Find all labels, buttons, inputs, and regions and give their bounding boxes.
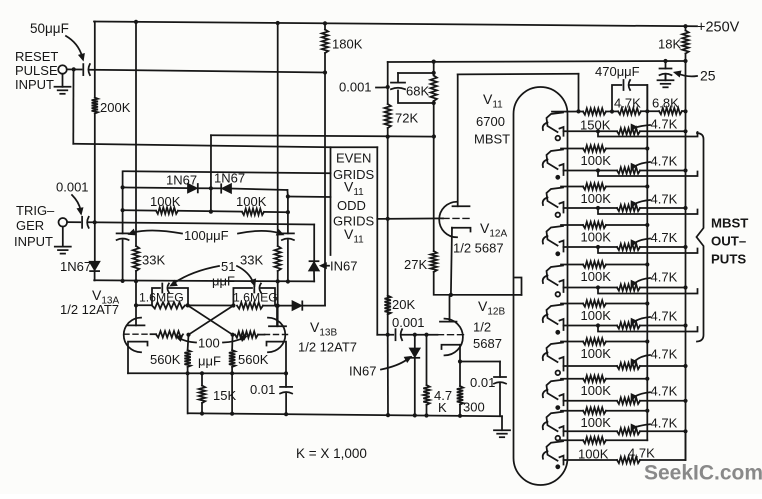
stage 4 filled dot	[555, 251, 560, 256]
arrow 4.7K stage 2	[633, 162, 650, 168]
node x288/100K row	[286, 210, 290, 214]
terminal trigger input	[59, 218, 68, 227]
svg-text:100K: 100K	[578, 447, 609, 462]
MBST stage 10 electrode	[547, 441, 564, 461]
svg-text:TRIG–: TRIG–	[16, 203, 55, 218]
wire V12A cathode down	[451, 228, 452, 295]
svg-text:15K: 15K	[213, 388, 236, 403]
node grid line	[386, 333, 390, 337]
capacitor 51uuF right loop	[233, 288, 252, 306]
resistor 100K left	[156, 208, 178, 214]
V13A cathode	[128, 342, 148, 374]
node V13B plate/diode	[275, 304, 279, 308]
resistor 4.7K stage 4	[617, 244, 640, 250]
svg-text:K: K	[438, 400, 447, 415]
resistor 4.7K V12B	[423, 385, 429, 405]
svg-text:0.001: 0.001	[339, 80, 372, 95]
node out bus stage 3	[683, 206, 687, 210]
resistor 4.7K stage 2	[617, 167, 640, 173]
wire to 25 cap	[665, 61, 667, 69]
node rail/180K line	[323, 21, 327, 25]
svg-text:20K: 20K	[392, 297, 415, 312]
wire V12B grid line	[377, 334, 393, 336]
wire stage 2 4.7K row	[564, 170, 618, 172]
node grid/4.7K	[424, 333, 428, 337]
wire 180K line down to output diode	[324, 53, 326, 306]
arrow 4.7K stage 4	[633, 239, 650, 245]
wire 1.6MEG row right	[263, 305, 293, 307]
stage 10 filled dot	[555, 464, 560, 469]
node out bus stage 5	[683, 285, 687, 289]
resistor 27K	[431, 251, 437, 272]
arrow 4.7K stage 9	[633, 424, 650, 428]
node bus stage 6	[645, 301, 649, 305]
stage 1 open dot	[556, 136, 561, 141]
wire x288 mid	[287, 197, 289, 234]
resistor 4.7K stage 9	[617, 428, 640, 434]
wire 300 to rail	[459, 405, 461, 416]
svg-text:100K: 100K	[581, 308, 612, 323]
svg-text:PUTS: PUTS	[711, 252, 746, 267]
diode 1N67 trigger A	[90, 262, 99, 270]
svg-text:4.7K: 4.7K	[651, 192, 678, 207]
stage 6 filled dot	[555, 330, 560, 335]
wire stage 5 100K row	[561, 264, 583, 266]
diode 1N67 odd-grids	[309, 263, 318, 271]
wire grid to 560K left	[187, 335, 190, 350]
node bus stage 8	[645, 377, 649, 381]
svg-text:1N67: 1N67	[166, 173, 197, 188]
node out bus stage 7	[683, 364, 687, 368]
wire stage 6 100K row	[561, 303, 583, 305]
diode 1N67 V12B	[410, 349, 419, 357]
V13B plate	[269, 325, 286, 327]
capacitor 0.001 V12B	[395, 329, 397, 340]
svg-text:100K: 100K	[581, 383, 612, 398]
wire grids box right edge down to V12B grid	[376, 147, 378, 334]
node rail/300	[458, 414, 462, 418]
svg-text:GRIDS: GRIDS	[333, 214, 375, 229]
svg-text:1N67: 1N67	[60, 259, 91, 274]
node V12A cathode/V12B plate	[449, 293, 453, 297]
svg-text:560K: 560K	[238, 352, 269, 367]
wire stage 9 100K row	[561, 410, 583, 412]
svg-text:100μμF: 100μμF	[184, 228, 229, 243]
resistor 100K stage 7	[583, 338, 606, 344]
svg-text:MBST: MBST	[711, 216, 748, 231]
resistor 33K right	[275, 246, 281, 271]
node 0.001	[386, 85, 390, 89]
wire 0.01 to rail	[499, 384, 501, 416]
MBST stage 1 electrode	[547, 113, 564, 133]
node V13B plate/row	[276, 279, 280, 283]
node odd-grids	[286, 194, 290, 198]
capacitor 25	[660, 68, 672, 70]
svg-text:100K: 100K	[581, 269, 612, 284]
resistor 100K stage 5	[583, 261, 606, 267]
svg-text:560K: 560K	[150, 352, 181, 367]
svg-text:MBST: MBST	[474, 132, 510, 147]
resistor 4.7K stage 6	[617, 322, 640, 328]
resistor 100K stage 2	[583, 145, 606, 151]
V13A plate	[128, 324, 145, 326]
resistor 100K stage 6	[583, 300, 606, 306]
wire	[402, 334, 437, 336]
node row1 left	[576, 109, 580, 113]
node grid/diode	[413, 333, 417, 337]
node x122/100K row	[121, 208, 125, 212]
svg-text:4.7K: 4.7K	[651, 117, 678, 132]
svg-text:4.7K: 4.7K	[651, 416, 678, 431]
wire MBST output tap stage 1	[596, 129, 600, 133]
wire	[264, 211, 288, 213]
wire 27K to V12B plate row	[434, 272, 522, 295]
MBST stage 9 electrode	[547, 412, 564, 432]
resistor 4.7K stage 5	[617, 284, 640, 290]
node 470 left	[610, 109, 614, 113]
svg-text:33K: 33K	[142, 253, 165, 268]
node 560K right/cathode row	[230, 371, 234, 375]
svg-text:33K: 33K	[240, 253, 263, 268]
node out bus stage 1	[683, 129, 687, 133]
node 15K top	[200, 371, 204, 375]
box even/odd grids	[331, 147, 378, 255]
svg-text:GER: GER	[16, 218, 44, 233]
wire diode row left	[123, 186, 188, 189]
wire V12B cathode down	[459, 345, 461, 362]
svg-text:OUT–: OUT–	[711, 234, 746, 249]
wire stage 7 4.7K row	[564, 365, 618, 367]
brace MBST outputs	[697, 133, 704, 342]
V13A grid dashes	[124, 333, 147, 335]
stage 3 open dot	[556, 213, 561, 218]
wire MBST output tap stage 5	[596, 285, 600, 289]
svg-text:200K: 200K	[100, 100, 131, 115]
V12A grid dashes	[443, 217, 469, 219]
node out bus stage 4	[683, 245, 687, 249]
node y136 line	[386, 135, 390, 139]
wire stage 8 4.7K row	[564, 400, 618, 402]
node 1.6MEG right / cross	[231, 303, 235, 307]
resistor 560K left	[184, 350, 190, 367]
arrow IN67 V12B	[381, 360, 407, 370]
arrow 100 right	[223, 338, 243, 343]
wire 100K bus	[646, 85, 648, 440]
wire 20K line to rail	[387, 335, 389, 415]
capacitor 0.01 flip-flop	[280, 386, 292, 388]
node 68K box bottom	[432, 101, 436, 105]
wire L1 divider to 18K node	[388, 61, 686, 62]
stage 5 open dot	[556, 292, 561, 297]
node rail/20K line	[386, 413, 390, 417]
wire x122 lower	[122, 240, 124, 281]
wire x288 upper	[286, 190, 289, 197]
node cap right/plate row	[286, 279, 290, 283]
node rail/18K	[683, 24, 687, 28]
wire V12A plate lead	[457, 74, 459, 206]
wire V12B plate lead	[449, 295, 451, 322]
resistor 33K left	[133, 246, 139, 271]
arrow 50uuF	[66, 36, 82, 56]
svg-text:4.7K: 4.7K	[651, 309, 678, 324]
svg-text:IN67: IN67	[349, 364, 376, 379]
node out bus stage 9	[683, 429, 687, 433]
svg-text:1N67: 1N67	[214, 171, 245, 186]
svg-text:25: 25	[700, 68, 716, 84]
resistor 15K	[199, 386, 205, 404]
svg-text:IN67: IN67	[330, 259, 357, 274]
arrow 4.7K stage 6	[633, 317, 650, 323]
wire trigger to cap	[67, 221, 80, 223]
node grid left	[186, 333, 190, 337]
resistor 180K	[322, 30, 328, 54]
resistor 560K right	[229, 350, 235, 367]
wire to 15K	[201, 373, 203, 385]
resistor 1.6MEG right	[237, 302, 263, 308]
resistor 100K stage 4	[583, 222, 606, 228]
node 470 right/bus2	[645, 109, 649, 113]
resistor 1.6MEG left	[152, 302, 185, 308]
svg-text:100K: 100K	[581, 191, 612, 206]
svg-text:100K: 100K	[236, 194, 267, 209]
node x122/diode row	[121, 185, 125, 189]
wire 0.001 node to trigger diodes	[211, 135, 434, 136]
resistor 6.8K	[659, 108, 682, 114]
wire diode to plate row	[94, 271, 96, 280]
wire 33K to V13A plate	[135, 271, 137, 325]
capacitor 100uuF left	[117, 232, 129, 234]
node diode row center	[209, 186, 213, 190]
resistor grid left	[156, 331, 183, 337]
arrow 4.7K stage 5	[633, 278, 650, 285]
svg-text:1/2 12AT7: 1/2 12AT7	[298, 340, 357, 355]
tube V13B envelope	[268, 318, 285, 353]
resistor 300	[457, 386, 463, 405]
MBST stage 5 electrode	[547, 266, 564, 286]
arrow 0.001 trigger	[72, 195, 81, 210]
node V13A plate/1.6MEG row	[134, 303, 138, 307]
wire 68K to 27K	[433, 101, 435, 251]
wire 470uuF loop	[612, 85, 621, 111]
V12A plate	[453, 205, 470, 207]
wire 560K right to rail	[231, 367, 233, 414]
wire stage 1 4.7K row	[564, 130, 618, 132]
wire rail corner down	[94, 22, 96, 98]
hook tube connection	[515, 278, 522, 295]
svg-text:PULSE: PULSE	[15, 63, 58, 78]
svg-text:470μμF: 470μμF	[595, 64, 640, 79]
V12B plate	[440, 321, 457, 323]
node V13B cathode	[284, 371, 288, 375]
svg-text:EVEN: EVEN	[336, 151, 371, 166]
wire 33K to V13B plate	[277, 271, 279, 326]
ground trigger input	[62, 227, 64, 247]
node bus stage 7	[645, 339, 649, 343]
svg-text:100K: 100K	[581, 346, 612, 361]
node 68K box top	[432, 71, 436, 75]
diode 1N67 steering left	[188, 184, 197, 192]
wire +250V top rail	[94, 22, 697, 27]
wire trigger line	[89, 222, 315, 224]
node trigger/diode line	[93, 220, 97, 224]
svg-text:100K: 100K	[581, 415, 612, 430]
wire	[387, 87, 389, 104]
stage 8 filled dot	[555, 405, 560, 410]
diode 1N67 output	[293, 301, 302, 309]
svg-text:0.001: 0.001	[56, 180, 89, 195]
node rail/15K	[200, 411, 204, 415]
wire	[178, 210, 242, 213]
ground 25 cap	[665, 75, 667, 80]
wire V13B plate lead	[276, 306, 278, 327]
svg-text:6700: 6700	[476, 114, 505, 129]
svg-text:ODD: ODD	[337, 198, 366, 213]
resistor 4.7K stage 1	[617, 128, 640, 134]
node cap left/plate row	[121, 279, 125, 283]
wire cathode branch	[460, 361, 500, 363]
arrow 4.7K stage 3	[633, 200, 650, 205]
svg-text:INPUT: INPUT	[15, 77, 54, 92]
svg-text:100K: 100K	[581, 153, 612, 168]
wire 15K to rail	[201, 403, 203, 414]
wire stage 10 4.7K row	[564, 459, 618, 461]
resistor 72K	[385, 104, 391, 128]
wire V13A grid out	[151, 333, 157, 335]
node reset branch	[72, 67, 76, 71]
arrow 100uuF right	[238, 231, 279, 234]
MBST stage 7 electrode	[547, 343, 564, 363]
svg-text:+250V: +250V	[697, 20, 740, 36]
ground main	[501, 416, 503, 430]
wire L2 down	[578, 74, 580, 112]
wire diode row right	[231, 189, 287, 191]
tube V11 6700 MBST envelope	[514, 87, 568, 485]
wire trigger corner down	[313, 225, 315, 263]
wire stage 3 4.7K row	[564, 207, 618, 209]
wire stage 3 100K row	[561, 186, 583, 188]
wire between diodes	[198, 187, 223, 189]
svg-text:150K: 150K	[580, 118, 611, 133]
V13B cathode	[267, 342, 287, 374]
node out bus stage 8	[683, 399, 687, 403]
resistor 4.7K row1	[618, 108, 641, 114]
resistor 100K right	[242, 209, 264, 215]
wire stage 8 100K row	[561, 378, 583, 380]
svg-text:5687: 5687	[473, 336, 502, 351]
capacitor 0.01 right	[494, 376, 506, 378]
svg-text:0.01: 0.01	[250, 382, 275, 397]
svg-text:51: 51	[221, 259, 235, 274]
wire MBST output tap stage 6	[596, 323, 600, 327]
wire 0.01 to rail	[285, 394, 287, 415]
node rail/diode	[413, 413, 417, 417]
wire stage 7 100K row	[561, 341, 583, 343]
wire x122 upper	[122, 171, 124, 233]
svg-text:1/2 12AT7: 1/2 12AT7	[60, 302, 119, 317]
svg-text:6.8K: 6.8K	[652, 96, 679, 111]
tube V12A envelope	[439, 202, 457, 238]
capacitor 50uuF	[82, 64, 84, 75]
svg-text:4.7K: 4.7K	[651, 230, 678, 245]
node 100K row center	[209, 210, 213, 214]
wire to 0.01 cap	[285, 373, 287, 387]
wire 100K row	[123, 209, 156, 211]
V12B grid dashes	[438, 334, 464, 336]
svg-text:INPUT: INPUT	[14, 234, 53, 249]
svg-text:68K: 68K	[406, 84, 429, 99]
wire MBST output tap stage 4	[596, 245, 600, 249]
svg-text:4.7K: 4.7K	[651, 270, 678, 285]
wire grid to 560K right	[231, 335, 234, 350]
resistor 4.7K stage 8	[617, 398, 640, 404]
node bus stage 3	[645, 184, 649, 188]
resistor 4.7K stage 7	[617, 363, 640, 369]
wire stage 2 100K row	[561, 148, 583, 150]
MBST stage 6 electrode	[547, 305, 564, 325]
svg-text:SeekIC.com: SeekIC.com	[644, 462, 762, 485]
svg-text:100K: 100K	[581, 230, 612, 245]
node V12A grid	[386, 217, 390, 221]
svg-text:GRIDS: GRIDS	[333, 167, 375, 182]
resistor 150K	[583, 108, 606, 114]
arrow 4.7K stage 1	[633, 125, 650, 128]
wire 200K to trigger diode	[94, 114, 96, 262]
resistor 200K	[92, 98, 98, 114]
svg-text:K = X 1,000: K = X 1,000	[296, 446, 367, 461]
svg-text:0.001: 0.001	[392, 315, 425, 330]
resistor 68K	[431, 76, 437, 102]
svg-text:1/2: 1/2	[473, 320, 491, 335]
wire plate row	[94, 280, 314, 281]
svg-text:50μμF: 50μμF	[30, 21, 69, 36]
svg-text:4.7K: 4.7K	[614, 96, 641, 111]
svg-text:μμF: μμF	[212, 274, 235, 289]
capacitor 51uuF left loop	[152, 288, 160, 305]
svg-text:0.01: 0.01	[470, 375, 495, 390]
wire V13B plate line upper	[277, 23, 279, 246]
wire V12A grid	[377, 217, 443, 220]
node 560K left/cathode row	[186, 371, 190, 375]
arrow-line 0.001 top	[376, 86, 386, 88]
svg-text:72K: 72K	[395, 111, 418, 126]
arrow 51uuF left	[174, 266, 219, 283]
wire to 0.01	[499, 362, 501, 378]
MBST stage 8 electrode	[547, 380, 564, 400]
resistor 4.7K stage 10	[617, 457, 640, 463]
wire 25 cap to gnd	[665, 75, 667, 80]
wire grid to 4.7K	[426, 335, 428, 385]
svg-text:1/2 5687: 1/2 5687	[453, 241, 504, 256]
node 18K/L1	[683, 59, 687, 63]
tube V13A envelope	[124, 318, 141, 353]
wire reset line to 180K node	[90, 70, 325, 73]
arrow 25	[678, 74, 697, 77]
stage 2 filled dot	[555, 175, 560, 180]
wire even-grids feed line	[73, 144, 330, 148]
V13B grid dashes	[265, 334, 288, 336]
arrow 4.7K stage 8	[633, 392, 650, 398]
node rail/560K right	[230, 412, 234, 416]
svg-text:300: 300	[463, 400, 485, 415]
svg-text:4.7K: 4.7K	[651, 347, 678, 362]
wire cross-coupling A	[188, 305, 233, 334]
wire stage 5 4.7K row	[564, 287, 618, 289]
wire reset branch down	[72, 69, 74, 143]
arrow 100 left	[179, 338, 196, 343]
wire reset to cap	[67, 68, 82, 70]
capacitor 100uuF right	[282, 232, 294, 234]
wire 1.6MEG row mid	[188, 304, 234, 306]
